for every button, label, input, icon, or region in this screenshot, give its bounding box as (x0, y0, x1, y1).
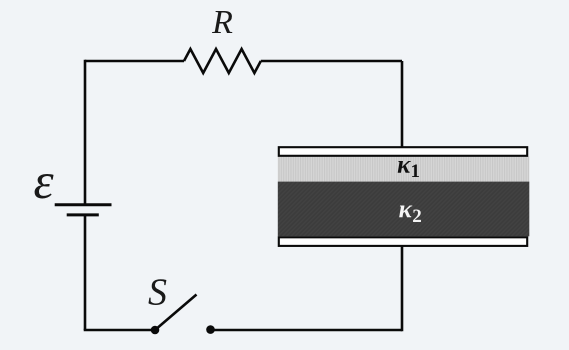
wire top-left horizontal lead (85, 60, 184, 63)
svg-text:S: S (148, 272, 167, 314)
svg-text:κ: κ (399, 196, 413, 223)
dielectric kappa2 layer (278, 182, 530, 237)
wire capacitor bottom lead (401, 246, 404, 331)
svg-text:ε: ε (33, 154, 54, 210)
wire bottom-right horizontal (211, 329, 403, 332)
wire left vertical (top) (84, 60, 87, 204)
svg-text:2: 2 (412, 206, 422, 227)
wire left vertical (bottom) (84, 215, 87, 330)
capacitor top plate (279, 147, 527, 156)
wire bottom-left horizontal (84, 329, 155, 332)
switch S contact left node (151, 326, 160, 335)
switch contact right node (206, 325, 215, 334)
dielectric kappa1 layer (278, 157, 530, 182)
wire top-right horizontal (261, 60, 402, 63)
svg-text:1: 1 (410, 161, 420, 182)
capacitor bottom plate (279, 237, 527, 246)
svg-text:κ: κ (397, 152, 411, 179)
battery (EMF source) (55, 203, 112, 206)
resistor R (184, 49, 261, 73)
svg-text:R: R (211, 4, 233, 41)
switch blade (155, 295, 197, 331)
wire capacitor top lead (401, 61, 404, 147)
